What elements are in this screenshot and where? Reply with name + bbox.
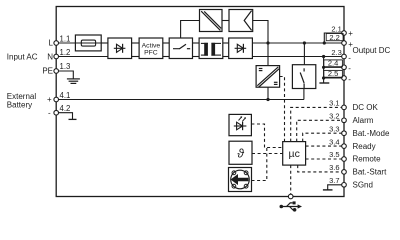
svg-text:3.7: 3.7	[329, 176, 339, 185]
svg-text:Input AC: Input AC	[7, 52, 38, 61]
wire terminal 2.5	[324, 77, 344, 79]
plus output rail	[252, 42, 344, 44]
output switch S2	[292, 65, 315, 89]
wire PE to earth	[56, 71, 73, 79]
minus output rail	[252, 56, 344, 58]
wire DC/DC to battery line	[267, 87, 269, 99]
svg-text:3.2: 3.2	[329, 112, 339, 121]
switch S1	[169, 38, 192, 59]
svg-text:-: -	[48, 108, 51, 117]
terminal 3.1	[342, 105, 347, 110]
node junction 2.5	[322, 76, 325, 79]
svg-text:1.3: 1.3	[60, 62, 71, 71]
terminal USB	[288, 194, 293, 199]
wire switch to transformer top rail	[193, 42, 200, 44]
svg-text:4.2: 4.2	[60, 104, 71, 113]
terminal N	[54, 54, 59, 59]
svg-text:-: -	[348, 53, 351, 62]
charger block (chevron)	[229, 10, 253, 32]
terminal 3.4	[342, 144, 347, 149]
svg-text:4.1: 4.1	[60, 91, 71, 100]
terminal 4.1	[54, 97, 59, 102]
node junction minus bus	[322, 55, 325, 58]
svg-text:+: +	[47, 95, 52, 104]
node junction switch riser	[303, 41, 306, 44]
Active PFC block	[139, 38, 163, 59]
label box 2.5	[324, 70, 343, 77]
DC/DC converter U2	[256, 66, 280, 88]
wire between top blocks	[222, 20, 229, 22]
terminal 3.6	[342, 170, 347, 175]
fan block	[229, 168, 252, 192]
wire terminal 2.4	[324, 66, 344, 68]
dashed wire 3.3 Bat.-Mode	[303, 133, 344, 141]
terminal 3.5	[342, 157, 347, 162]
microcontroller U1	[283, 142, 306, 166]
terminal 2.4	[342, 65, 347, 70]
svg-text:Output DC: Output DC	[353, 46, 391, 55]
svg-text:PE: PE	[42, 66, 53, 75]
earth ground symbol	[67, 79, 80, 84]
wire 3.7 SGnd to chassis	[323, 185, 344, 190]
wire switch to transformer bottom rail	[193, 56, 200, 58]
wire riser to output switch	[303, 43, 305, 65]
wire rectifier to PFC top rail	[132, 42, 140, 44]
output diode D2	[229, 38, 253, 59]
chassis bar minus bus	[319, 82, 329, 84]
terminal 3.7	[342, 183, 347, 188]
terminal 2.1	[342, 31, 347, 36]
transformer T1	[199, 38, 223, 59]
node junction charger/plus rail	[266, 41, 269, 44]
wire fuse to rectifier	[101, 42, 108, 44]
wire PFC to switch top rail	[163, 42, 169, 44]
rectifier diode D1	[108, 38, 132, 59]
node junction 2.4	[322, 66, 325, 69]
node junction battery line	[266, 98, 269, 101]
svg-text:3.1: 3.1	[329, 99, 339, 108]
dashed wire LED to microcontroller	[251, 124, 282, 148]
terminal 2.5	[342, 76, 347, 81]
USB symbol	[280, 201, 303, 211]
terminal L	[54, 41, 59, 46]
wire minus bus down	[323, 57, 325, 83]
terminal 3.2	[342, 118, 347, 123]
wire L 1.1	[56, 42, 75, 44]
dashed wire temperature sensor to microcontroller	[252, 153, 283, 155]
wire transformer to diode bottom rail	[223, 56, 229, 58]
dashed wire DC/DC status to microcontroller	[280, 77, 285, 142]
dashed wire 3.6 Bat.-Start	[298, 165, 344, 172]
wire PFC to switch bottom rail	[163, 56, 169, 58]
terminal 4.2	[54, 110, 59, 115]
svg-text:µc: µc	[289, 148, 300, 160]
svg-text:2.2: 2.2	[329, 33, 339, 42]
svg-text:3.4: 3.4	[329, 137, 339, 146]
node junction 2.1	[323, 41, 326, 44]
svg-text:-: -	[348, 75, 351, 84]
wire battery plus 4.1	[56, 99, 304, 101]
dashed wire 3.4 Ready	[306, 145, 344, 147]
dashed wire microcontroller to USB port	[290, 165, 292, 196]
svg-text:Bat.-Start: Bat.-Start	[353, 168, 388, 177]
wire transformer to diode top rail	[223, 42, 229, 44]
svg-text:1.1: 1.1	[60, 34, 71, 43]
dashed wire fan to microcontroller	[252, 148, 267, 181]
svg-text:Battery: Battery	[7, 101, 32, 110]
svg-text:N: N	[47, 52, 53, 61]
svg-text:2.5: 2.5	[328, 69, 338, 78]
wire battery minus 4.2 to chassis	[56, 113, 76, 120]
terminal 3.3	[342, 131, 347, 136]
fuse F1	[75, 35, 101, 51]
svg-text:Bat.-Mode: Bat.-Mode	[353, 129, 390, 138]
svg-text:L: L	[49, 39, 54, 48]
terminal 2.3	[342, 54, 347, 59]
svg-text:3.3: 3.3	[329, 124, 339, 133]
device outline box	[56, 7, 344, 197]
wire rectifier to PFC bottom rail	[132, 56, 140, 58]
wire N 1.2	[56, 56, 108, 58]
svg-text:1.2: 1.2	[60, 48, 71, 57]
svg-text:3.5: 3.5	[329, 150, 339, 159]
wire charger to plus rail and DC/DC input	[253, 21, 268, 66]
wire output switch to battery line	[303, 89, 305, 100]
temperature sensor block	[229, 141, 252, 164]
terminal PE	[54, 69, 59, 74]
svg-text:3.6: 3.6	[329, 163, 339, 172]
svg-text:Active: Active	[142, 43, 161, 50]
svg-text:Ready: Ready	[353, 142, 376, 151]
dashed wire 3.1 DC OK	[291, 107, 344, 141]
svg-text:PFC: PFC	[144, 50, 158, 57]
boost converter block (diagonal)	[200, 10, 223, 32]
wire terminal 2.1	[324, 33, 344, 43]
svg-text:ϑ: ϑ	[237, 147, 244, 161]
label box 2.2	[326, 34, 343, 41]
svg-text:Alarm: Alarm	[353, 116, 374, 125]
wire riser to boost converter	[181, 21, 200, 39]
svg-text:Remote: Remote	[353, 155, 382, 164]
terminal 2.2	[342, 41, 347, 46]
svg-text:2.4: 2.4	[328, 59, 338, 68]
svg-text:DC OK: DC OK	[353, 103, 379, 112]
LED indicator block	[229, 114, 251, 135]
dashed wire 3.2 Alarm	[297, 120, 344, 141]
dashed wire 3.5 Remote	[306, 158, 344, 160]
label box 2.4	[324, 60, 343, 67]
svg-text:+: +	[348, 29, 353, 38]
svg-text:SGnd: SGnd	[353, 181, 373, 190]
svg-text:2.3: 2.3	[331, 48, 341, 57]
svg-text:-: -	[348, 64, 351, 73]
